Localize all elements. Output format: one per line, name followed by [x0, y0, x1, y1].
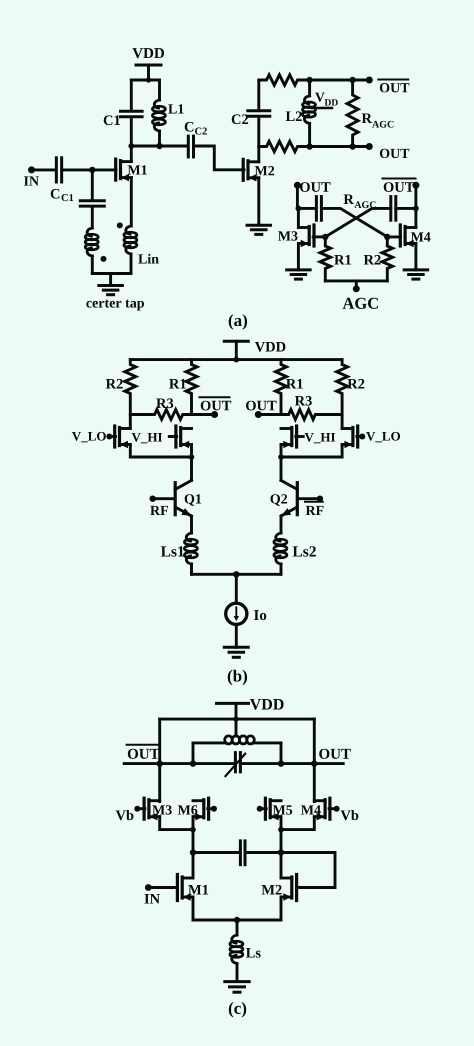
- wire OUT to cap: [298, 207, 316, 210]
- power VDD (c): [217, 699, 284, 736]
- ground M3: [287, 269, 311, 279]
- resistor R1 right: [276, 360, 303, 415]
- node OUT tank-a: [366, 143, 410, 158]
- wire rail-b: [130, 358, 342, 361]
- node OUT agc: [294, 182, 331, 192]
- transistor M6 (c): [178, 798, 209, 820]
- wire VHIL source down: [190, 445, 193, 481]
- wire M2 drain up: [257, 147, 260, 162]
- resistor tank-a bottom: [259, 141, 370, 151]
- wire IN to CC1: [32, 168, 57, 171]
- wire M2 source down: [280, 897, 283, 920]
- capacitor agc left: [316, 197, 321, 221]
- inductor Ls2: [274, 517, 316, 575]
- wire feedback loop: [281, 853, 335, 888]
- power VDD (a): [132, 48, 164, 80]
- transistor M4 (c): [301, 798, 330, 820]
- node Vb left: [116, 806, 145, 821]
- wire cap right to OUTbar: [396, 207, 416, 210]
- wire tank-a top rail: [131, 79, 159, 82]
- node OUTbar agc: [383, 179, 420, 192]
- wire inner right: [280, 743, 283, 764]
- caption (c): [229, 1002, 246, 1017]
- varactor: [226, 753, 246, 777]
- wire tail to Io: [235, 574, 238, 603]
- junction sources right: [278, 454, 284, 460]
- ground M2: [247, 224, 270, 234]
- junction sources M6: [190, 827, 196, 833]
- caption (b): [228, 670, 247, 685]
- wire cross right-to-M3gate: [325, 208, 391, 237]
- transistor Q2: [270, 480, 297, 516]
- wire sources left: [130, 445, 191, 458]
- polarity dot primary: [101, 256, 107, 262]
- transistor M1: [116, 159, 147, 181]
- wire M3-M6 sources: [160, 817, 193, 830]
- transistor V_LO left: [72, 426, 130, 448]
- wire CC1 to M1 gate: [62, 168, 116, 171]
- wire CC2 to M2 gate: [194, 146, 245, 170]
- junction rail M5: [278, 760, 284, 766]
- wire M2 source down: [257, 178, 260, 225]
- capacitor gate shunt: [80, 170, 104, 228]
- wire OUT rail left: [124, 762, 235, 765]
- junction L1/rail: [156, 143, 162, 149]
- capacitor CC1: [51, 158, 74, 201]
- node RFbar: [297, 496, 323, 516]
- junction RAGC bottom: [349, 143, 355, 149]
- wire tail bottom: [192, 573, 282, 576]
- junction sources left: [189, 454, 195, 460]
- wire sources right: [281, 445, 342, 458]
- wire M4 gate lead: [387, 235, 400, 238]
- node OUTbar tank-a: [366, 77, 410, 93]
- wire outer right down: [313, 719, 316, 801]
- node OUTbar (c): [127, 745, 160, 759]
- ground center tap: [86, 274, 144, 311]
- wire outer left down: [158, 719, 161, 801]
- junction cap left: [296, 206, 302, 212]
- power VDD tap L2: [312, 93, 338, 108]
- transistor Q1: [175, 480, 201, 516]
- transistor M1 (c): [177, 875, 208, 901]
- junction sources M5: [278, 827, 284, 833]
- node M6 gate: [208, 806, 217, 812]
- wire M1 source down: [192, 897, 195, 920]
- node AGC: [343, 281, 378, 309]
- wire M1 source down: [130, 178, 133, 226]
- power VDD (b): [224, 341, 285, 359]
- transistor M3 (c): [144, 798, 172, 820]
- transistor M2 (c): [262, 875, 297, 901]
- node OUT (b): [246, 401, 276, 418]
- wire VHIR source down: [280, 445, 283, 481]
- junction L2 bottom: [306, 143, 312, 149]
- transistor V_HI left: [132, 426, 192, 448]
- transistor M4: [400, 225, 430, 247]
- junction VDD/rail-b: [234, 357, 240, 363]
- junction tail: [233, 571, 239, 577]
- junction Ls top: [234, 917, 240, 923]
- wire OUT down to M3: [297, 185, 298, 227]
- node IN: [24, 166, 39, 185]
- ground Ls: [225, 981, 249, 992]
- wire cross left-to-M4gate: [321, 208, 387, 237]
- node OUTbar (b): [200, 397, 232, 418]
- transistor M3: [278, 225, 314, 247]
- node RF: [150, 496, 176, 516]
- wire R1-R2 bottom: [325, 279, 387, 282]
- junction rail M4: [311, 760, 317, 766]
- transistor V_LO right: [342, 426, 400, 448]
- junction rail M6: [190, 760, 196, 766]
- capacitor coupling (c): [240, 841, 245, 865]
- ground Io: [224, 624, 248, 657]
- ground M4: [404, 269, 428, 279]
- capacitor CC2: [185, 122, 207, 157]
- wire inner left: [192, 743, 195, 764]
- resistor R1 agc: [320, 237, 351, 281]
- capacitor C1: [104, 80, 142, 146]
- wire center-tap bottom: [92, 272, 131, 275]
- capacitor agc right: [391, 197, 396, 221]
- node M5 gate: [257, 806, 267, 812]
- resistor R3 right: [258, 396, 342, 420]
- wire M5-M4 sources: [281, 817, 314, 830]
- wire tank-a bottom rail: [131, 145, 188, 148]
- junction L2 top: [306, 77, 312, 83]
- node Vb right: [329, 806, 358, 821]
- inductor tank (c): [193, 736, 281, 744]
- wire M4 source down: [414, 244, 417, 271]
- junction VDD/outer rail: [233, 716, 238, 721]
- resistor RAGC tank: [347, 80, 393, 147]
- junction cap-wire right: [278, 849, 284, 855]
- wire source rail (c): [193, 919, 281, 922]
- node OUT (c): [319, 749, 351, 759]
- junction M4 gate node: [384, 234, 390, 240]
- junction VDD/rail: [146, 77, 151, 82]
- junction RAGC top: [349, 77, 355, 83]
- resistor R3 left: [130, 398, 214, 419]
- resistor R2 agc: [364, 237, 393, 281]
- wire outer rail: [160, 718, 315, 721]
- resistor R1 left: [169, 360, 197, 415]
- wire OUTbar down to M4: [414, 185, 417, 227]
- transformer Lin primary coil: [85, 228, 98, 274]
- wire cap left: [193, 851, 238, 854]
- inductor Ls1: [161, 517, 198, 575]
- transistor M5 (c): [265, 798, 292, 820]
- wire OUT rail right: [240, 762, 343, 765]
- junction rail M3: [157, 760, 163, 766]
- wire M3 gate lead: [313, 235, 325, 238]
- junction cap right: [413, 206, 419, 212]
- node IN (c): [144, 884, 176, 903]
- junction M1 drain/rail: [128, 143, 134, 149]
- wire left branch down: [192, 817, 195, 878]
- inductor L2: [286, 80, 316, 147]
- transistor M2: [243, 159, 274, 181]
- label RAGC agc: [344, 195, 376, 209]
- polarity dot secondary: [117, 222, 123, 228]
- wire M3 source down: [297, 244, 300, 271]
- resistor R2 right: [337, 360, 365, 429]
- capacitor C2: [232, 80, 270, 147]
- transformer Lin secondary coil: [124, 226, 159, 274]
- junction cap-wire left: [190, 849, 196, 855]
- caption (a): [229, 314, 247, 329]
- transistor V_HI right: [281, 426, 335, 448]
- resistor R2 left: [106, 360, 136, 429]
- junction M3 gate node: [322, 234, 328, 240]
- wire M1 drain up: [130, 146, 133, 162]
- inductor Ls: [230, 920, 261, 981]
- inductor L1: [152, 80, 183, 146]
- wire right branch down: [280, 817, 283, 878]
- current source Io: [226, 603, 267, 624]
- resistor tank-a top: [259, 75, 370, 85]
- wire cap right: [247, 851, 281, 854]
- junction gate node A: [89, 167, 95, 173]
